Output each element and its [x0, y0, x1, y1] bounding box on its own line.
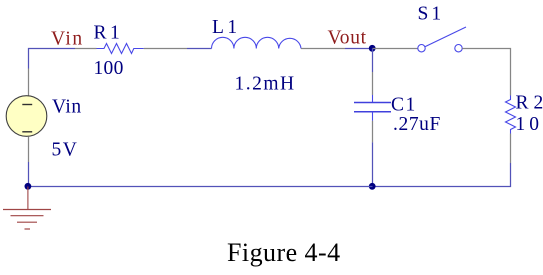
voltage source V1 (Vin 5V): [6, 96, 47, 137]
svg-text:Figure 4-4: Figure 4-4: [227, 238, 341, 267]
wire: switch S1 to R2 (top right corner): [462, 49, 510, 96]
switch S1: [418, 27, 466, 52]
svg-text:5V: 5V: [52, 140, 79, 161]
junction node at ground: [25, 183, 32, 190]
wire: R2 to bottom rail (bottom right corner): [372, 163, 511, 187]
inductor L1 right pin: [301, 48, 345, 50]
svg-text:R2: R2: [516, 93, 543, 114]
svg-text:Vin: Vin: [51, 29, 84, 50]
wire: bottom rail (ground node to C1 node): [28, 186, 373, 188]
svg-text:Vout: Vout: [328, 28, 367, 49]
capacitor C1 top pin: [372, 72, 374, 95]
wire: top-left corner from node Vin to R1: [29, 49, 76, 69]
svg-text:1.2mH: 1.2mH: [235, 74, 296, 95]
resistor R1 right pin / inductor L1 left pin: [144, 48, 187, 50]
resistor R1 left pin: [75, 48, 97, 50]
svg-text:R1: R1: [94, 22, 124, 43]
capacitor C1: [354, 95, 391, 121]
junction node Vout: [369, 45, 376, 52]
wire: source bottom to ground node: [28, 162, 30, 187]
resistor R2 bottom pin: [510, 134, 512, 164]
resistor R2: [506, 96, 516, 134]
wire: R1 to L1: [187, 48, 212, 50]
voltage source V1 pin (top): [28, 69, 30, 96]
wire: C1 to bottom rail: [372, 142, 374, 186]
capacitor C1 bottom pin: [372, 121, 374, 143]
svg-text:C1: C1: [391, 94, 417, 115]
junction node at C1 / bottom rail: [369, 183, 376, 190]
svg-text:L1: L1: [212, 17, 241, 38]
ground: [3, 187, 51, 230]
wire: L1 to node Vout: [345, 48, 373, 50]
svg-text:.27uF: .27uF: [393, 114, 441, 135]
svg-text:10: 10: [516, 114, 543, 135]
wire: capacitor node to node Vout branch (top): [372, 49, 374, 73]
resistor R1: [97, 44, 144, 54]
voltage source V1 pin (bottom): [28, 136, 30, 162]
inductor L1: [212, 37, 302, 48]
wire: node Vout to switch S1: [373, 48, 418, 50]
svg-text:100: 100: [94, 58, 124, 79]
svg-text:Vin: Vin: [52, 97, 82, 118]
svg-text:S1: S1: [418, 4, 445, 25]
